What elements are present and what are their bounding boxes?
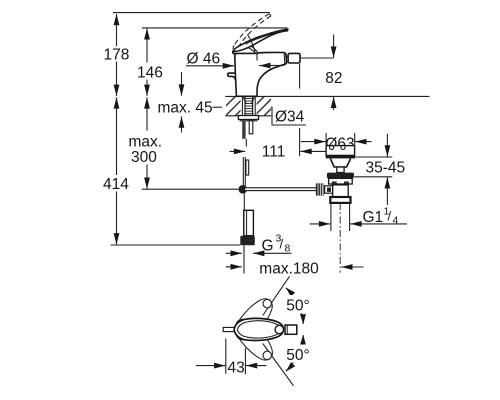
ball joint — [239, 185, 248, 194]
dimension G 3/8 (hose thread) — [226, 233, 292, 255]
svg-text:max.180: max.180 — [259, 260, 319, 277]
handle rod tip (plan, rear) — [223, 327, 234, 331]
lever handle raised (dashed) lower edge — [238, 16, 271, 47]
threaded shank wall right — [254, 97, 256, 116]
closed-lever height reference line — [142, 27, 287, 29]
dimension 414 — [103, 97, 129, 244]
spout neck step — [287, 56, 289, 62]
svg-text:max. 45: max. 45 — [158, 100, 213, 117]
dimension max. 300 — [129, 97, 163, 189]
hose tail below nut — [243, 245, 245, 273]
waste cap (diam 63) — [326, 145, 355, 155]
50deg lower extension line — [263, 344, 294, 386]
flexible hose double line — [243, 157, 245, 186]
stud left (dark) — [242, 121, 245, 139]
label 50deg upper — [285, 295, 315, 315]
deck bottom surface line — [225, 115, 271, 117]
waste neck — [330, 159, 350, 168]
svg-text:300: 300 — [131, 149, 157, 166]
50deg upper dimension arc — [286, 288, 303, 324]
body tab left — [332, 182, 337, 185]
lever nose foot — [233, 50, 237, 54]
body/spout joint line — [256, 54, 258, 61]
dimension 43 — [196, 339, 267, 377]
label 50deg lower — [285, 345, 315, 365]
spout extension line — [299, 64, 301, 156]
waste stem block — [337, 167, 344, 173]
mounting deck hatched section left — [226, 96, 241, 115]
arc arrowhead lower at stub — [300, 335, 306, 345]
ghost lever rotated down 50 deg — [230, 314, 279, 366]
clevis block — [333, 185, 349, 197]
locknut below deck — [238, 116, 258, 120]
body tab right — [344, 182, 349, 185]
lever end circle — [275, 325, 283, 333]
svg-text:146: 146 — [137, 64, 163, 81]
spout tip inner edge — [283, 53, 286, 64]
waste lower body (thick outline) — [330, 197, 350, 203]
shank top flare — [243, 97, 255, 104]
top reference line (raised lever height) — [113, 12, 270, 14]
dimension 82 (spout height) — [300, 35, 342, 111]
pop-up rod knob at rear of body — [228, 73, 236, 81]
raised lever tip dash — [269, 14, 271, 16]
lever rotation trace arc — [247, 35, 255, 53]
reference line max300 bottom — [142, 188, 242, 190]
faucet body with spout (front view) — [235, 52, 287, 96]
svg-text:35-45: 35-45 — [366, 160, 406, 177]
cartridge dome seam arcs — [244, 43, 258, 53]
svg-text:414: 414 — [103, 176, 129, 193]
dimension 35-45 (clamping range) — [354, 134, 405, 205]
svg-text:50°: 50° — [286, 347, 309, 364]
lever plan inner outline — [237, 321, 281, 338]
svg-text:8: 8 — [285, 243, 291, 255]
dimension diameter 46 — [186, 50, 284, 67]
dimension max. 45 (deck thickness) — [158, 72, 223, 133]
knurled coupling knob — [316, 183, 324, 195]
svg-text:50°: 50° — [286, 298, 309, 315]
dimension diameter 63 — [301, 133, 372, 152]
tailpipe centerline — [339, 203, 341, 273]
G3/8 nipple — [244, 210, 254, 235]
stud right — [249, 121, 253, 134]
pull rod upper segment — [245, 139, 247, 147]
lever handle raised (dashed) upper edge — [234, 14, 269, 46]
horizontal pop-up rod — [245, 188, 317, 191]
deck top surface line — [225, 95, 429, 97]
svg-text:111: 111 — [262, 144, 286, 161]
dimension 178 — [104, 14, 130, 96]
lever inner edge line — [246, 30, 286, 44]
hose lower segment — [243, 194, 245, 211]
set screw (dark) — [327, 188, 331, 192]
hose end nut (dark) — [240, 236, 255, 246]
svg-text:G: G — [262, 238, 274, 255]
50deg lower dimension arc — [286, 335, 303, 371]
washer line — [240, 120, 258, 122]
ghost lever rotated up 50 deg — [230, 293, 279, 345]
threaded shank wall left — [241, 97, 243, 116]
svg-text:/: / — [280, 237, 284, 252]
svg-text:G1: G1 — [363, 209, 384, 226]
svg-text:Ø34: Ø34 — [275, 108, 305, 125]
rod clamp bar — [246, 160, 249, 175]
handle stub (plan) — [285, 325, 297, 334]
lever handle plan view (solid) — [234, 318, 283, 340]
svg-text:178: 178 — [104, 47, 130, 64]
tailpipe wall left — [330, 203, 332, 231]
dimension diameter 34 (deck hole) — [226, 107, 306, 125]
mounting deck hatched section right — [257, 96, 272, 115]
svg-text:/: / — [388, 209, 392, 224]
aerator block — [288, 53, 300, 63]
arc arrowhead upper at line — [286, 288, 295, 297]
raised lever nose dash — [233, 45, 234, 50]
svg-text:82: 82 — [325, 70, 342, 87]
svg-text:Ø 46: Ø 46 — [187, 50, 221, 67]
dimension 111 (projection) — [230, 144, 341, 161]
tailpipe wall right — [349, 203, 351, 231]
dimension max.180 (rod length) — [226, 260, 364, 277]
dimension 146 — [137, 28, 163, 96]
lever handle (closed position) — [234, 29, 288, 51]
svg-text:4: 4 — [393, 215, 399, 227]
dimension G1 1/4 (tailpipe thread) — [310, 206, 407, 227]
50deg upper extension line — [263, 276, 290, 315]
rod link housing — [325, 186, 333, 193]
arc arrowhead upper at stub — [300, 314, 306, 324]
waste cap flange (dark) — [326, 155, 355, 158]
seal flange (dark) — [327, 173, 354, 179]
reference line 414 bottom — [111, 244, 241, 246]
waste upper body — [329, 178, 353, 184]
arc arrowhead lower at line — [286, 362, 295, 371]
threaded stud with thread ticks — [245, 97, 253, 116]
svg-text:43: 43 — [228, 359, 245, 376]
